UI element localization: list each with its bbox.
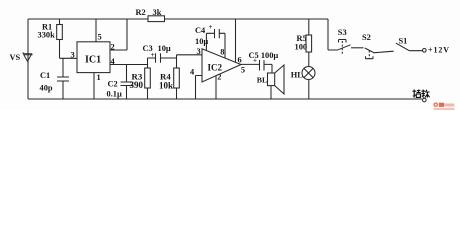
svg-text:C1: C1 xyxy=(40,71,50,80)
svg-text:5: 5 xyxy=(241,65,245,74)
svg-text:VS: VS xyxy=(10,53,21,62)
svg-text:BL: BL xyxy=(257,75,267,84)
svg-text:100: 100 xyxy=(295,43,308,52)
svg-text:10µ: 10µ xyxy=(195,37,208,46)
svg-text:1: 1 xyxy=(97,73,101,82)
svg-text:0.1µ: 0.1µ xyxy=(107,90,122,99)
svg-text:IC2: IC2 xyxy=(208,63,223,73)
svg-text:10µ: 10µ xyxy=(158,44,171,53)
svg-text:HL: HL xyxy=(291,71,304,80)
svg-text:5: 5 xyxy=(98,33,102,42)
svg-text:6: 6 xyxy=(238,56,242,65)
svg-text:390: 390 xyxy=(130,80,144,90)
svg-text:R2: R2 xyxy=(136,8,146,17)
svg-text:S1: S1 xyxy=(399,37,408,46)
svg-text:+: + xyxy=(151,51,155,59)
svg-text:IC1: IC1 xyxy=(85,55,101,66)
svg-text:3k: 3k xyxy=(153,8,162,17)
svg-text:40p: 40p xyxy=(40,84,53,93)
svg-text:+: + xyxy=(253,57,257,65)
svg-text:3: 3 xyxy=(197,47,201,56)
svg-text:C2: C2 xyxy=(108,80,118,89)
svg-text:2: 2 xyxy=(111,43,115,52)
svg-text:8: 8 xyxy=(220,48,224,57)
svg-text:S3: S3 xyxy=(338,28,347,37)
svg-text:C4: C4 xyxy=(195,26,206,35)
svg-text:S2: S2 xyxy=(362,33,371,42)
svg-text:+: + xyxy=(209,23,213,31)
svg-text:4: 4 xyxy=(190,68,195,77)
svg-text:3: 3 xyxy=(71,51,75,60)
svg-text:2: 2 xyxy=(217,73,221,82)
svg-text:10k: 10k xyxy=(159,81,173,91)
svg-text:+12V: +12V xyxy=(428,46,450,55)
svg-text:330k: 330k xyxy=(38,31,56,40)
